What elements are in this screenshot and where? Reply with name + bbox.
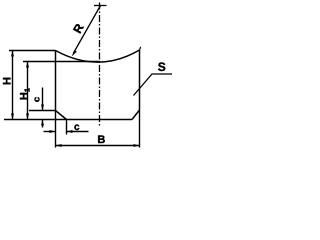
svg-text:B: B [97,134,105,146]
dimension B left arrow [56,144,62,147]
dimension H bottom arrow [11,114,14,120]
dimension H line [12,51,14,120]
svg-text:S: S [158,60,166,74]
dimension c vertical top arrow (down) [41,105,44,111]
part outline: bottom-left chamfer [56,111,67,120]
extension line top-left (H datum) [9,50,56,52]
part outline: right side [139,50,141,110]
svg-text:c: c [32,97,43,102]
dimension B line [56,145,140,147]
svg-text:H: H [2,77,14,85]
part outline: bottom edge with left extension line [4,119,132,121]
extension line right (B) [139,110,141,148]
svg-text:c: c [74,122,80,133]
extension line chamfer top [29,110,56,112]
dimension c vertical line (above) [42,88,44,111]
centerline top tick [94,5,107,7]
extension line chamfer bottom corner [66,120,68,135]
extension line H1 datum (to curve low point) [23,61,100,63]
part outline: top-right corner spike [140,47,141,50]
dimension c horizontal right arrow [67,131,89,133]
dimension H1 bottom arrow [26,114,29,120]
dimension H1 top arrow [26,62,29,68]
dimension c vertical lower arrow (up) [42,120,44,128]
centerline (dash-dot) [99,3,101,128]
part outline: left side [55,51,57,111]
dimension B right arrow [134,144,140,147]
dimension c horizontal left arrow [44,131,56,133]
dimension H top arrow [11,51,14,57]
radius R arrowhead [72,50,77,56]
extension line left (c and B) [55,111,57,148]
part outline: bottom-right chamfer [132,110,140,120]
part outline: top concave curve [56,50,140,62]
radius R leader line [74,6,101,54]
S leader line [134,74,173,96]
dimension H1 line [27,62,29,120]
